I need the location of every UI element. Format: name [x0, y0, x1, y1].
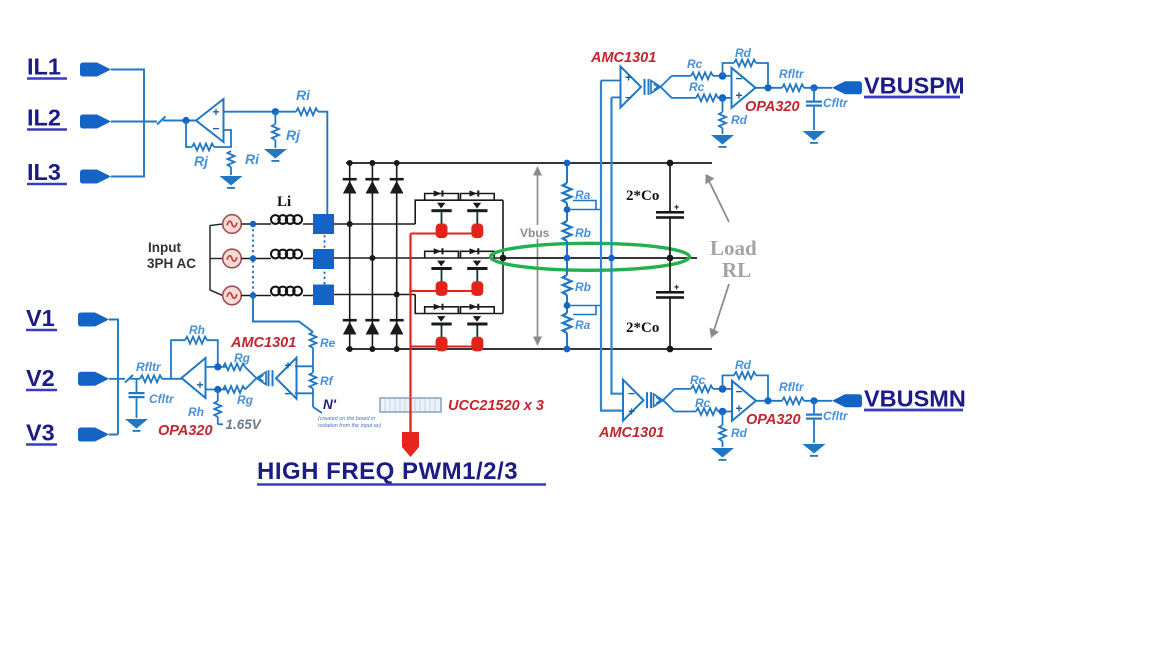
resistor Rd to ground bottom	[719, 412, 726, 448]
svg-text:Rd: Rd	[735, 46, 752, 60]
AC source phase C	[223, 286, 242, 305]
pin VBUSMN	[832, 394, 862, 407]
wire AMC minus to Rf	[295, 392, 313, 394]
wire red gate row3	[411, 346, 478, 348]
svg-text:−: −	[285, 387, 292, 401]
svg-text:Rb: Rb	[575, 226, 591, 240]
op-amp OPA320 bottom	[732, 381, 756, 421]
wire tap lower to sense line	[567, 306, 601, 315]
svg-text:1.65V: 1.65V	[226, 417, 262, 432]
node top bus junctions	[347, 160, 400, 166]
isolation amp AMC1301 left	[245, 358, 297, 401]
wire Rfltr to op-amp	[162, 378, 182, 380]
ground below Cfltr left	[125, 419, 148, 432]
svg-text:−: −	[736, 385, 743, 399]
wire break slash	[157, 117, 166, 125]
wire slash to Rfltr	[130, 378, 140, 380]
wire sense line L2	[612, 97, 624, 393]
gate driver UCC21520 block	[380, 398, 441, 412]
node tap lower	[564, 302, 571, 309]
wire Rc to node bottom lower	[718, 411, 732, 413]
wire AMC bottom output upper	[675, 388, 692, 390]
svg-text:AMC1301: AMC1301	[598, 425, 664, 441]
pin IL3	[80, 170, 111, 184]
svg-text:RL: RL	[722, 258, 751, 282]
op-amp U2 current sense	[196, 99, 224, 142]
svg-text:Rfltr: Rfltr	[779, 67, 805, 81]
svg-text:Rj: Rj	[286, 127, 301, 143]
wire red gate row1	[411, 233, 478, 235]
svg-text:Load: Load	[710, 236, 757, 260]
load arrow top	[706, 174, 730, 222]
wire OPA bottom output	[756, 400, 782, 402]
current sensor block phase B	[313, 249, 334, 269]
svg-text:Rj: Rj	[194, 153, 209, 169]
svg-text:OPA320: OPA320	[158, 423, 213, 439]
transistor Q1a	[425, 190, 459, 238]
wire break slash V2	[125, 375, 133, 383]
note tiny text	[318, 416, 381, 429]
svg-text:+: +	[736, 402, 743, 416]
svg-text:+: +	[285, 359, 292, 373]
resistor Rb top	[563, 221, 572, 241]
wire Rfltr to pin top	[804, 87, 832, 89]
svg-text:Ri: Ri	[245, 151, 260, 167]
svg-text:isolation from the input ac): isolation from the input ac)	[318, 423, 381, 429]
node OPA top plus	[719, 94, 727, 102]
node left minus	[214, 363, 221, 370]
resistor Rfltr top	[782, 84, 804, 91]
wire phase B to coil	[241, 258, 271, 260]
capacitor Cfltr bottom	[806, 401, 822, 443]
svg-text:+: +	[736, 89, 743, 103]
node phase C junction	[250, 292, 256, 298]
resistor Rg upper	[223, 363, 245, 370]
svg-text:AMC1301: AMC1301	[230, 335, 296, 351]
resistor Rd to ground top	[719, 98, 726, 134]
node IL3 label	[27, 159, 67, 185]
wire phase C to coil	[241, 295, 271, 297]
wire IL1 to bus	[111, 70, 157, 177]
resistor Ra top	[563, 183, 572, 203]
node V1 label	[26, 305, 57, 331]
svg-text:+: +	[628, 405, 635, 419]
pin PWM red connector	[402, 432, 419, 457]
diode D2 top leg2	[365, 178, 379, 194]
wire phase C sense to Re	[253, 296, 313, 333]
svg-text:Vbus: Vbus	[520, 226, 550, 240]
node VBUSMN label	[864, 386, 966, 412]
svg-text:3PH AC: 3PH AC	[147, 256, 196, 271]
inductor Li phase B	[271, 250, 302, 259]
resistor Rd feedback bottom	[723, 372, 769, 401]
svg-text:IL2: IL2	[27, 105, 61, 131]
wire divider chain	[566, 163, 568, 349]
resistor Rc bottom upper	[691, 385, 713, 392]
resistor Ra bottom	[563, 313, 572, 333]
transistor Q3a	[425, 304, 459, 352]
node phase junctions on legs	[347, 221, 400, 298]
svg-text:AMC1301: AMC1301	[590, 50, 656, 66]
node midpoint junction	[500, 255, 507, 262]
svg-text:(created on the board in: (created on the board in	[318, 416, 375, 422]
node Cfltr tap top	[810, 84, 817, 91]
svg-text:2*Co: 2*Co	[626, 188, 659, 204]
transistor Q2b	[461, 248, 495, 296]
node phase B junction	[250, 255, 256, 261]
resistor Rfltr left	[140, 375, 162, 382]
wire phase C to bridge	[334, 294, 415, 296]
resistor Rc bottom lower	[696, 408, 718, 415]
svg-text:−: −	[628, 387, 635, 401]
wire L2 into top AMC	[612, 96, 621, 98]
op-amp OPA320 top	[732, 68, 756, 108]
svg-text:+: +	[674, 282, 679, 292]
pin VBUSPM	[832, 81, 862, 94]
resistor Rc upper	[691, 72, 713, 79]
transistor Q2a	[425, 248, 459, 296]
ground below Cfltr top	[803, 131, 826, 144]
wire op-amp output	[224, 111, 276, 113]
svg-text:Re: Re	[320, 336, 336, 350]
resistor Rh feedback	[185, 337, 207, 344]
svg-text:Rh: Rh	[188, 405, 204, 419]
svg-text:V2: V2	[26, 365, 55, 391]
resistor Rd feedback top	[723, 60, 769, 88]
svg-text:OPA320: OPA320	[746, 412, 801, 428]
wire bottom bus	[346, 348, 712, 350]
svg-text:Rd: Rd	[731, 426, 748, 440]
AC source phase B	[223, 249, 242, 268]
svg-text:V3: V3	[26, 420, 55, 446]
svg-text:−: −	[213, 122, 220, 136]
wire red gate bus	[409, 234, 411, 434]
resistor Rh to reference	[214, 390, 223, 425]
wire Rc to node upper	[713, 75, 732, 77]
diode D1 top leg1	[343, 178, 357, 194]
resistor Rj vertical at output	[272, 112, 279, 148]
wire V pins bus	[109, 320, 125, 435]
svg-text:Ri: Ri	[296, 87, 311, 103]
svg-text:VBUSPM: VBUSPM	[864, 73, 965, 99]
ground below Cfltr bottom	[803, 444, 826, 457]
svg-text:Rg: Rg	[237, 393, 254, 407]
wire bridge leg 3	[396, 163, 398, 349]
resistor Ri horizontal	[275, 108, 318, 115]
wire op-amp inputs left	[206, 367, 228, 390]
wire Ri to sensor column	[318, 112, 327, 214]
wire phase B to bridge	[334, 257, 503, 259]
node phase A junction	[250, 221, 256, 227]
diode D4 bottom leg1	[343, 319, 357, 335]
resistor Rj feedback	[192, 144, 214, 151]
op-amp OPA320 left	[182, 358, 206, 398]
node bottom bus junctions	[347, 346, 400, 352]
wire Re to AMC plus	[295, 365, 313, 367]
svg-text:Rc: Rc	[690, 373, 706, 387]
resistor Rfltr bottom	[782, 397, 804, 404]
svg-text:Ra: Ra	[575, 318, 591, 332]
node OPA bottom output	[764, 397, 771, 404]
ground below Rd top	[711, 135, 734, 148]
current sensor block phase A	[313, 214, 334, 234]
resistor Rc lower	[696, 94, 718, 101]
svg-text:+: +	[625, 71, 632, 85]
wire Rfltr to pin bottom	[804, 400, 832, 402]
wire OPA top output	[756, 87, 783, 89]
svg-text:Rd: Rd	[735, 358, 752, 372]
transistor Q3b	[461, 304, 495, 352]
wire AMC top output upper	[672, 75, 691, 77]
capacitor 2*Co top	[656, 202, 684, 219]
svg-text:IL3: IL3	[27, 159, 61, 185]
svg-text:Rb: Rb	[575, 280, 591, 294]
wire inverting feedback	[186, 121, 231, 148]
svg-text:V1: V1	[26, 305, 55, 331]
svg-text:Rfltr: Rfltr	[136, 360, 162, 374]
wire switch row3	[415, 295, 503, 314]
diode D3 top leg3	[390, 178, 404, 194]
svg-text:Rfltr: Rfltr	[779, 380, 805, 394]
capacitor bank wire top	[669, 163, 671, 349]
wire red gate row2	[411, 290, 478, 292]
node cap midline	[667, 255, 674, 262]
svg-text:−: −	[736, 72, 743, 86]
wire phase A to coil	[241, 223, 271, 225]
resistor Rb bottom	[563, 275, 572, 295]
node left plus	[214, 386, 221, 393]
svg-text:Rd: Rd	[731, 113, 748, 127]
node IL1 label	[27, 54, 67, 80]
capacitor 2*Co bottom	[656, 282, 684, 299]
inductor Li phase A	[271, 215, 302, 224]
node tap upper	[564, 206, 571, 213]
wire sense line L1	[601, 81, 623, 411]
wire AMC bottom output lower	[675, 411, 697, 413]
ground below Rj	[264, 149, 287, 162]
node output junction	[272, 108, 279, 115]
node cap bottom bus	[667, 346, 674, 353]
pin V1	[78, 313, 109, 327]
node OPA bottom plus	[719, 408, 727, 416]
highlight green ellipse	[491, 243, 690, 270]
node OPA top minus	[719, 72, 727, 80]
resistor Re	[310, 332, 317, 366]
node Cfltr tap bottom	[810, 397, 817, 404]
load RL label	[710, 236, 757, 282]
svg-text:Cfltr: Cfltr	[823, 96, 849, 110]
resistor Ri vertical to ground	[228, 151, 235, 175]
pin V3	[78, 428, 109, 442]
resistor Rf	[310, 366, 317, 407]
ground below Rd bottom	[711, 448, 734, 461]
svg-text:Rc: Rc	[695, 396, 711, 410]
wire bridge leg 2	[371, 163, 373, 349]
svg-text:Rh: Rh	[189, 323, 205, 337]
node midline sense junction	[608, 255, 615, 262]
node cap top bus	[667, 160, 674, 167]
isolation amp AMC1301 top	[621, 66, 673, 107]
AC source phase A	[223, 215, 242, 234]
diode D6 bottom leg3	[390, 319, 404, 335]
diode D5 bottom leg2	[365, 319, 379, 335]
node IL2 label	[27, 105, 67, 131]
wire feedback left op-amp	[171, 340, 218, 379]
wire to node N prime	[313, 407, 322, 413]
node divider top bus	[564, 160, 571, 167]
svg-text:2*Co: 2*Co	[626, 320, 659, 336]
node V2 label	[26, 365, 57, 391]
wire red through driver	[409, 398, 411, 433]
load arrow bottom	[710, 284, 730, 338]
current sensor block phase C	[313, 285, 334, 306]
svg-text:Li: Li	[277, 194, 291, 210]
node VBUSPM label	[864, 73, 965, 99]
svg-text:+: +	[197, 378, 204, 392]
svg-text:Cfltr: Cfltr	[149, 392, 175, 406]
svg-text:UCC21520 x 3: UCC21520 x 3	[448, 398, 544, 414]
svg-text:OPA320: OPA320	[745, 99, 800, 115]
wire top bus	[346, 162, 712, 164]
svg-text:Rf: Rf	[320, 374, 334, 388]
node OPA top output	[764, 84, 771, 91]
inductor Li phase C	[271, 287, 302, 296]
svg-text:+: +	[213, 105, 220, 119]
wire dotted sensor chain	[324, 230, 326, 290]
svg-text:VBUSMN: VBUSMN	[864, 386, 966, 412]
svg-text:Rc: Rc	[689, 80, 705, 94]
wire switch midpoint column	[502, 200, 504, 313]
pin IL1	[80, 63, 111, 77]
wire coils to sensors	[303, 224, 313, 296]
isolation amp AMC1301 bottom	[623, 380, 675, 421]
capacitor Cfltr left	[129, 379, 145, 418]
wire L1 into top AMC	[601, 80, 621, 82]
wire tap upper to sense line	[567, 201, 601, 210]
node OPA bottom minus	[719, 385, 727, 393]
resistor Rg lower	[223, 386, 245, 393]
svg-text:−: −	[625, 91, 632, 105]
pin IL2	[80, 115, 111, 129]
svg-text:Rc: Rc	[687, 57, 703, 71]
Input 3PH AC label	[147, 240, 196, 271]
node tap mid	[564, 255, 571, 262]
wire AMC top output lower	[672, 97, 696, 99]
svg-text:Input: Input	[148, 240, 181, 255]
transistor Q1b	[461, 190, 495, 238]
svg-text:Rg: Rg	[234, 351, 251, 365]
wire slash to op-amp	[163, 120, 196, 122]
pin V2	[78, 372, 109, 386]
svg-text:IL1: IL1	[27, 54, 61, 80]
wire Rc to node bottom upper	[713, 388, 732, 390]
node divider bottom bus	[564, 346, 571, 353]
svg-text:HIGH FREQ PWM1/2/3: HIGH FREQ PWM1/2/3	[257, 458, 518, 485]
capacitor Cfltr top	[806, 88, 822, 130]
wire bridge leg 1	[349, 163, 351, 349]
svg-text:Cfltr: Cfltr	[823, 409, 849, 423]
svg-text:N': N'	[323, 397, 337, 412]
wire DC midpoint line	[503, 257, 697, 259]
wire input bracket	[210, 224, 223, 296]
node HIGH FREQ PWM label	[257, 458, 546, 485]
wire Rc to node lower	[718, 97, 732, 99]
svg-text:+: +	[674, 202, 679, 212]
ground below Ri	[220, 176, 243, 189]
wire switch row1	[415, 200, 503, 224]
wire phase A to bridge	[334, 223, 415, 225]
label Vbus with arrow	[517, 166, 559, 346]
node V3 label	[26, 420, 57, 446]
node A junction	[182, 117, 189, 124]
wire dotted sense link	[252, 224, 254, 296]
